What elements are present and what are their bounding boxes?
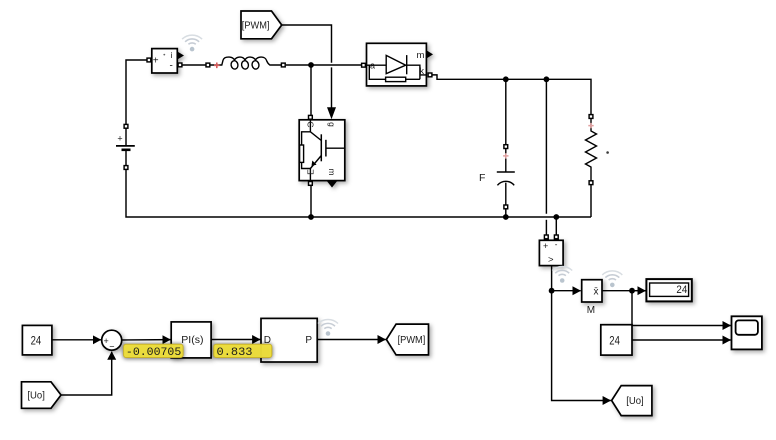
current measurement block U1 (152, 49, 184, 73)
junction display node (629, 288, 635, 294)
wire voltmeter output down (551, 266, 553, 291)
svg-text:m: m (417, 50, 425, 61)
svg-text:[Uo]: [Uo] (626, 395, 644, 407)
mean block M (582, 280, 602, 302)
stray dot label (606, 151, 609, 154)
wire output rail to voltmeter plus (545, 79, 547, 214)
svg-text:24: 24 (31, 336, 42, 348)
wire voltmeter node to mean block (552, 290, 581, 292)
resistor R load (586, 117, 597, 184)
svg-text:PI(s): PI(s) (181, 335, 203, 346)
port marker IGBT collector (309, 115, 313, 119)
svg-text:a: a (370, 61, 375, 71)
constant 24 (voltage reference) (22, 325, 52, 355)
wire ground rail to voltmeter minus (555, 217, 557, 235)
wire battery top to current measurement input (126, 60, 147, 146)
signal logging badge PWM duty (318, 320, 338, 336)
wire PWM from-tag to IGBT gate (282, 25, 332, 111)
IGBT Q1 block (299, 120, 345, 188)
svg-text:E: E (306, 169, 316, 175)
svg-text:24: 24 (676, 284, 687, 296)
red plus polarity capacitor (503, 153, 508, 158)
svg-text:m: m (327, 168, 337, 175)
wire capacitor top (505, 79, 507, 145)
constant 24 (scope reference) (601, 325, 632, 355)
wire mean block to display node (602, 290, 632, 292)
wire inductor to diode anode node (286, 64, 363, 66)
wire capacitor bottom (505, 208, 507, 217)
diode D1 block (367, 43, 434, 86)
junction capacitor top on output rail (503, 76, 509, 82)
svg-text:[PWM]: [PWM] (398, 334, 426, 346)
junction voltmeter output node (549, 288, 555, 294)
svg-text:-0.00705: -0.00705 (126, 347, 181, 359)
port marker resistor top (589, 115, 593, 119)
svg-text:P: P (305, 335, 312, 346)
port marker battery top (124, 124, 128, 128)
battery V1 (116, 146, 135, 150)
goto tag [Uo] (612, 386, 652, 416)
From tag [PWM] (241, 11, 282, 39)
junction capacitor bottom on ground rail (503, 214, 509, 220)
scope block (732, 316, 762, 349)
wire resistor bottom to rail (590, 184, 592, 217)
junction IGBT emitter on ground rail (308, 214, 314, 220)
sum block (102, 330, 122, 350)
svg-text:[PWM]: [PWM] (242, 19, 270, 31)
svg-text:F: F (479, 172, 485, 184)
svg-text:x̄: x̄ (594, 286, 599, 297)
wire diode cathode to output rail (432, 75, 591, 115)
svg-text:+: + (104, 336, 109, 346)
wire PWM generator to PWM goto tag (317, 339, 386, 341)
port value tooltip 0.833 (214, 344, 272, 357)
port marker voltmeter plus (544, 235, 548, 239)
junction voltmeter minus on ground rail (553, 214, 559, 220)
signal logging badge voltage (552, 267, 572, 283)
port marker current meas output (178, 63, 182, 67)
signal logging badge current (182, 35, 202, 51)
svg-text:0.833: 0.833 (217, 347, 253, 359)
port value tooltip -0.00705 (124, 344, 184, 357)
svg-text:>: > (548, 254, 554, 265)
capacitor C1 (497, 145, 515, 208)
port marker diode cathode (428, 73, 432, 77)
svg-text:+: + (153, 56, 159, 67)
display block showing 24 (646, 279, 691, 301)
wire sum to PI controller (122, 339, 171, 341)
port marker inductor right (281, 63, 285, 67)
voltage measurement U2 (539, 240, 563, 265)
svg-text:-: - (170, 60, 173, 71)
svg-text:[Uo]: [Uo] (27, 389, 45, 401)
svg-text:+: + (117, 133, 122, 143)
port marker current meas input (147, 58, 151, 62)
port marker capacitor top (504, 145, 508, 149)
red plus polarity resistor (588, 123, 593, 128)
port marker diode anode (362, 63, 366, 67)
wire current measurement output to inductor (181, 64, 207, 66)
inductor L (207, 57, 283, 70)
PI controller block (171, 322, 211, 358)
wire battery bottom to ground rail (126, 150, 591, 217)
wire reference constant to sum (52, 339, 101, 341)
svg-text:24: 24 (609, 336, 620, 348)
wire display node down to scope input 1 (632, 291, 731, 326)
IGBT symbol inside (300, 120, 345, 181)
wire IGBT emitter to ground rail (310, 185, 312, 217)
svg-text:M: M (587, 305, 595, 316)
port marker IGBT emitter (309, 182, 313, 186)
svg-text:g: g (327, 122, 337, 127)
svg-text:i: i (171, 50, 173, 60)
svg-text:k: k (420, 66, 425, 76)
From tag [Uo] (22, 382, 62, 409)
junction node A (inductor/diode/IGBT) (308, 62, 314, 68)
port marker battery bottom (124, 166, 128, 170)
port marker voltmeter minus (554, 235, 558, 239)
wire constant 24 to scope input 2 (632, 339, 731, 341)
port marker capacitor bottom (504, 205, 508, 209)
goto tag [PWM] (386, 324, 428, 355)
wire crossing continuation to voltmeter plus (545, 220, 547, 235)
junction voltmeter tap on output rail (544, 76, 550, 82)
wire node A down to IGBT collector (310, 65, 312, 116)
wire node to display (632, 290, 646, 292)
diode symbol inside (367, 55, 427, 82)
PWM generator block (261, 318, 317, 362)
signal logging badge mean (602, 271, 622, 287)
wire PI controller to PWM generator (211, 339, 260, 341)
wire Uo from-tag to sum feedback input (61, 352, 112, 395)
arrowhead into IGBT gate (327, 107, 336, 119)
svg-text:-: - (555, 240, 558, 249)
port marker inductor left (206, 63, 210, 67)
wire voltmeter node down to Uo goto tag (552, 291, 611, 401)
svg-text:−: − (109, 341, 114, 351)
red plus polarity inductor (214, 63, 220, 69)
svg-text:+: + (543, 241, 548, 251)
port marker resistor bottom (589, 181, 593, 185)
svg-text:C: C (306, 121, 316, 127)
